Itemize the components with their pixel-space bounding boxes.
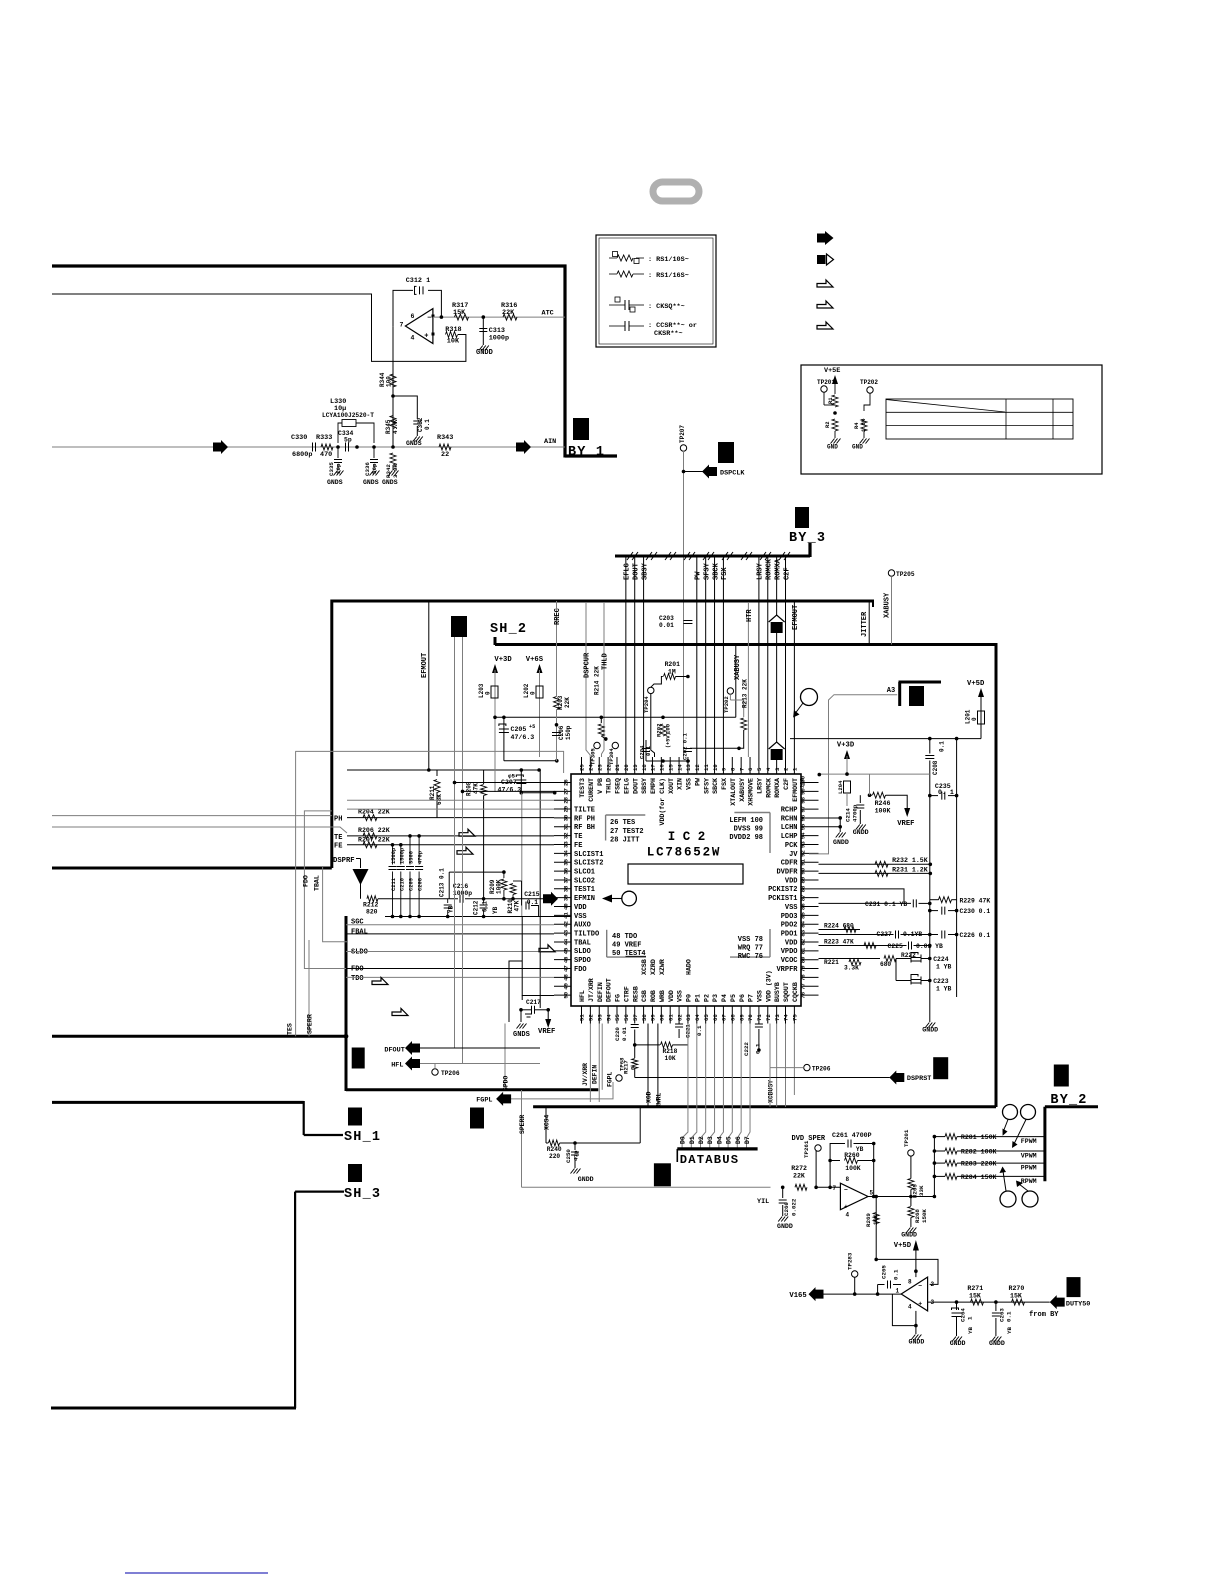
open flag TE row [459, 829, 475, 836]
svg-text:49: 49 [563, 982, 570, 989]
svg-text:XABUSY: XABUSY [884, 592, 892, 618]
svg-text:GNDD: GNDD [901, 1232, 917, 1239]
svg-text:0.01: 0.01 [621, 1027, 628, 1041]
svg-text:4.7K: 4.7K [392, 419, 399, 434]
svg-text:SFSY: SFSY [703, 778, 710, 794]
svg-text:80: 80 [800, 956, 807, 963]
svg-text:88: 88 [800, 885, 807, 892]
resistor R246 100K [868, 793, 872, 797]
svg-text:P5: P5 [730, 994, 737, 1002]
SH_2 frame left lower [345, 916, 348, 1091]
svg-text:VDD: VDD [785, 877, 798, 885]
svg-text:CDFR: CDFR [781, 860, 799, 868]
SH_2 frame bottom main [533, 1105, 996, 1108]
wire SQOUT down [785, 1024, 787, 1107]
wire: thick vertical to BY_1 [563, 265, 566, 458]
svg-text:TP304: TP304 [608, 748, 615, 765]
wire y761 [646, 760, 690, 762]
svg-text:SPDO: SPDO [574, 957, 591, 965]
svg-text:SLCO1: SLCO1 [574, 868, 595, 876]
svg-text:0.1: 0.1 [645, 745, 652, 756]
svg-text:XABUSY: XABUSY [734, 654, 742, 680]
svg-text:25: 25 [579, 764, 586, 771]
svg-text:TBAL: TBAL [314, 875, 321, 891]
op-amp U301 [405, 309, 433, 344]
svg-text:15K: 15K [969, 1293, 981, 1300]
wire CQCKB down [793, 1024, 795, 1096]
svg-text:SQOUT: SQOUT [783, 982, 790, 1002]
svg-text:CURENT: CURENT [588, 778, 595, 802]
ground GNDS [413, 437, 423, 442]
svg-text:4700p: 4700p [852, 804, 859, 822]
SH_2 frame second top [494, 637, 497, 645]
svg-text:470: 470 [320, 451, 332, 459]
open flag FE row [457, 847, 473, 854]
svg-text:YB: YB [1006, 1327, 1013, 1334]
svg-text:from BY: from BY [1029, 1311, 1059, 1319]
resistor R210 47K [513, 880, 522, 882]
svg-text:TP206: TP206 [441, 1070, 460, 1077]
svg-text:: RS1/10S~: : RS1/10S~ [648, 256, 689, 264]
svg-text:C223: C223 [933, 978, 949, 985]
svg-text:R208: R208 [466, 781, 473, 796]
svg-text:22K: 22K [564, 697, 571, 708]
svg-text:56: 56 [623, 1014, 630, 1021]
arrow AIN [516, 440, 531, 454]
svg-text:C250: C250 [565, 1149, 572, 1163]
svg-text:R282 100K: R282 100K [961, 1149, 997, 1156]
svg-text:−: − [844, 1187, 848, 1194]
legend resistor RS1/10S [617, 255, 633, 261]
svg-text:VPWM: VPWM [1021, 1153, 1037, 1160]
svg-text:SLCIST2: SLCIST2 [574, 860, 603, 868]
svg-text:RWC 76: RWC 76 [738, 953, 763, 961]
svg-text:50: 50 [563, 991, 570, 998]
capacitor YB [447, 899, 449, 903]
svg-text:XCS4: XCS4 [544, 1114, 551, 1130]
DSPRST arrow [635, 1077, 890, 1079]
svg-text:1 YB: 1 YB [936, 986, 952, 993]
legend open arrow 1 [817, 280, 833, 287]
wire P0-P7 to databus [682, 1024, 688, 1149]
arrow DUTY50 [1050, 1295, 1065, 1309]
svg-text:C222: C222 [743, 1042, 750, 1056]
svg-text:A3: A3 [887, 687, 895, 695]
wire XCS4 R240 C250 [545, 1107, 547, 1143]
resistor R260 100K [830, 1160, 840, 1162]
svg-text:SPERR: SPERR [519, 1115, 526, 1134]
svg-text:V+6S: V+6S [526, 656, 544, 664]
svg-text:SLCIST1: SLCIST1 [574, 851, 603, 859]
svg-text:60: 60 [659, 1014, 666, 1021]
audio out wires [819, 817, 841, 819]
svg-text:C211: C211 [391, 878, 397, 891]
svg-text:PCK: PCK [785, 842, 798, 850]
wire DEFOUT down [601, 1024, 603, 1090]
svg-text:L204: L204 [837, 780, 844, 794]
wire EFMIN row [378, 898, 458, 900]
wire vertical connector left b [462, 637, 464, 1064]
capacitor C335 10p [337, 447, 339, 458]
wire SH_3 net [295, 1190, 344, 1192]
svg-text:44: 44 [563, 938, 570, 945]
legend arrow half [817, 255, 826, 264]
svg-text:FG: FG [615, 994, 622, 1002]
svg-text:3300: 3300 [409, 851, 415, 864]
inductor L202 [536, 686, 543, 698]
arrow DSPRF down [356, 858, 361, 860]
connector square below edge [470, 1108, 484, 1129]
svg-text:C214: C214 [845, 808, 852, 822]
svg-text:DOUT: DOUT [633, 563, 641, 580]
svg-text:ROMCK: ROMCK [765, 778, 772, 798]
output wire [868, 1196, 934, 1198]
SH_2 frame left [330, 600, 333, 869]
EFMIN circle [622, 891, 637, 906]
svg-text:I C 2: I C 2 [668, 830, 706, 844]
svg-text:P6: P6 [739, 994, 746, 1002]
svg-text:C206: C206 [558, 725, 565, 740]
svg-text:100K: 100K [496, 879, 503, 894]
svg-text:77: 77 [800, 983, 807, 990]
svg-text:R343: R343 [437, 434, 453, 442]
svg-text:28: 28 [563, 796, 570, 803]
svg-text:XGD: XGD [646, 1091, 653, 1103]
connector square bottom left [352, 1048, 365, 1069]
svg-text:TE: TE [334, 834, 342, 842]
wire PCKIST loop [819, 889, 905, 904]
svg-text:CTRF: CTRF [623, 986, 630, 1002]
svg-text:JITTER: JITTER [861, 611, 869, 637]
svg-text:R333: R333 [316, 434, 332, 442]
svg-text:220: 220 [549, 1153, 560, 1160]
svg-text:FDO: FDO [574, 966, 587, 974]
arrow VREF down [904, 808, 910, 817]
svg-text:150p: 150p [565, 725, 572, 740]
wire XCBUSY [769, 1024, 771, 1068]
wire RREC [556, 601, 558, 645]
svg-text:47/6.3: 47/6.3 [511, 734, 535, 741]
svg-text:C212: C212 [473, 900, 480, 915]
svg-text:DFOUT: DFOUT [384, 1046, 404, 1054]
IC2 inset LEFM box [734, 812, 770, 814]
test point box [801, 365, 1102, 474]
resistor R269 10K [875, 1197, 877, 1260]
svg-text:WRQ 77: WRQ 77 [738, 945, 763, 953]
svg-text:SPERR: SPERR [307, 1014, 314, 1034]
svg-text:14: 14 [676, 764, 683, 771]
TP202 circle [727, 688, 733, 694]
svg-text:GNDS: GNDS [382, 479, 398, 486]
svg-text:RF BH: RF BH [574, 824, 595, 832]
svg-text:23: 23 [596, 764, 603, 771]
svg-text:100: 100 [386, 376, 393, 387]
svg-text:D3: D3 [707, 1136, 714, 1144]
svg-text:DSPCLK: DSPCLK [720, 470, 745, 478]
open flag SLDO [539, 945, 555, 952]
svg-text:LRSY: LRSY [757, 562, 765, 580]
svg-text:P4: P4 [721, 994, 728, 1002]
svg-text:R281 150K: R281 150K [961, 1134, 997, 1141]
svg-text:C225: C225 [888, 943, 904, 950]
wire ground bus y916.5 [385, 916, 571, 918]
svg-text:EFMOUT: EFMOUT [792, 605, 800, 630]
svg-text:R229 47K: R229 47K [960, 897, 991, 904]
svg-text:C335: C335 [328, 462, 335, 476]
svg-text:39: 39 [563, 894, 570, 901]
svg-text:JT/XRR: JT/XRR [588, 978, 595, 1002]
table [886, 399, 1073, 439]
svg-text:DSPCUR: DSPCUR [584, 652, 592, 678]
svg-text:TP201: TP201 [817, 379, 835, 386]
ground GNDS C217 [517, 1024, 527, 1029]
IC2 inner rectangle [628, 864, 743, 884]
capacitor C217 [509, 961, 522, 999]
svg-text:GNDD: GNDD [476, 349, 493, 357]
capacitor C205 47/6.3 [503, 717, 505, 761]
svg-text:78: 78 [800, 974, 807, 981]
svg-text:D1: D1 [689, 1136, 696, 1144]
svg-text:R231 1.2K: R231 1.2K [892, 866, 928, 873]
svg-text:WRB: WRB [659, 990, 666, 1002]
wires JT XRR DEFIN below [589, 1024, 591, 1103]
svg-text:10K: 10K [872, 1214, 879, 1225]
svg-text:FDO: FDO [303, 875, 310, 887]
wire vertical x5218 long [521, 793, 523, 917]
svg-text:33K: 33K [918, 1185, 925, 1196]
svg-text:R269: R269 [865, 1213, 872, 1227]
svg-text:C205: C205 [511, 726, 527, 733]
svg-text:1500p: 1500p [399, 848, 405, 864]
svg-text:93: 93 [800, 841, 807, 848]
svg-text:SBCK: SBCK [712, 778, 719, 794]
svg-text:0.1: 0.1 [1006, 1311, 1013, 1322]
svg-text:0: 0 [485, 691, 492, 695]
svg-text:RREC: RREC [554, 608, 562, 625]
svg-text:SH_1: SH_1 [344, 1130, 381, 1145]
svg-text:V165: V165 [789, 1292, 806, 1300]
svg-text:XABUSY: XABUSY [739, 778, 746, 802]
svg-text:ROMXA: ROMXA [774, 778, 781, 798]
resistor R203 22K [554, 697, 560, 710]
svg-text:C336: C336 [364, 462, 371, 476]
resistor R217 0 [634, 1045, 636, 1058]
capacitor C313 1000p [482, 317, 484, 345]
svg-text:87: 87 [800, 894, 807, 901]
IC2 inset TDO box [606, 930, 608, 957]
svg-text:84: 84 [800, 920, 807, 927]
svg-text:0: 0 [630, 1066, 637, 1070]
svg-text:63: 63 [685, 1014, 692, 1021]
svg-text:C203: C203 [659, 615, 674, 622]
wire long left TE [52, 826, 332, 828]
svg-text:CQCKB: CQCKB [792, 982, 799, 1002]
svg-text:C260: C260 [783, 1202, 790, 1216]
svg-text:680: 680 [880, 961, 891, 968]
IC2 top pins [581, 757, 583, 774]
svg-text:P1: P1 [694, 994, 701, 1002]
svg-text:+: + [844, 1204, 848, 1211]
svg-text:SFSY: SFSY [703, 562, 711, 580]
svg-text:BY_3: BY_3 [789, 531, 826, 546]
svg-text:72: 72 [765, 1014, 772, 1021]
svg-text:GNDD: GNDD [922, 1027, 938, 1034]
svg-text:FSX: FSX [721, 778, 728, 790]
svg-text:TILTE: TILTE [574, 806, 595, 814]
SH_2 frame top [332, 600, 874, 603]
svg-text:18: 18 [641, 764, 648, 771]
svg-text:51: 51 [579, 1014, 586, 1021]
svg-text:100: 100 [800, 775, 807, 786]
wire SPOO vertical [504, 1024, 506, 1091]
svg-text:42: 42 [563, 920, 570, 927]
op-amp IC2 body [571, 774, 801, 1006]
capacitor C206 150p [555, 723, 559, 727]
svg-text:AUXO: AUXO [574, 922, 591, 930]
svg-text:TP207: TP207 [679, 425, 686, 443]
svg-text:100K: 100K [875, 808, 891, 815]
svg-text:100: 100 [665, 723, 672, 734]
svg-text:47K: 47K [514, 900, 521, 911]
svg-text:GNDS: GNDS [406, 440, 422, 447]
svg-text:C216: C216 [453, 883, 469, 890]
svg-text:99: 99 [800, 788, 807, 795]
IC2 bottom pins [581, 1006, 583, 1024]
svg-text:47K: 47K [473, 783, 480, 794]
svg-text:C226 0.1: C226 0.1 [960, 932, 991, 939]
svg-text:PDO3: PDO3 [781, 913, 798, 921]
svg-text:R221: R221 [824, 959, 839, 966]
svg-text:R224 680: R224 680 [824, 923, 854, 930]
wire long left PH [52, 815, 332, 817]
svg-text:YB: YB [492, 906, 499, 914]
svg-text:1000p: 1000p [489, 335, 509, 343]
TP305 [594, 742, 600, 748]
resistor R268 150K [910, 1197, 912, 1207]
resistor R342 3.9K [390, 453, 396, 465]
svg-text:98: 98 [800, 796, 807, 803]
svg-text:XIN: XIN [677, 778, 684, 790]
svg-text:D6: D6 [735, 1136, 742, 1144]
connector A3 square [909, 686, 924, 706]
svg-text:DOUT: DOUT [632, 778, 639, 794]
svg-text:C213 0.1: C213 0.1 [439, 868, 446, 897]
svg-text:65: 65 [703, 1014, 710, 1021]
resistor R202 100 [660, 724, 666, 736]
svg-text:TP305: TP305 [590, 748, 597, 765]
resistor R1 [832, 395, 838, 407]
svg-text:97: 97 [800, 806, 807, 813]
svg-text:RCHP: RCHP [781, 806, 798, 814]
svg-text:TP202: TP202 [723, 696, 730, 713]
svg-text:R214 22K: R214 22K [594, 666, 601, 695]
svg-text:XTALOUT: XTALOUT [730, 778, 737, 806]
resistor R265 33K [908, 1179, 914, 1190]
svg-text:FE: FE [574, 842, 582, 850]
svg-text:29: 29 [563, 805, 570, 812]
svg-text:R270: R270 [1009, 1285, 1025, 1292]
svg-text:EFMOUT: EFMOUT [421, 653, 429, 678]
svg-text:TP204: TP204 [643, 696, 650, 713]
svg-text:35: 35 [563, 858, 570, 865]
TP304 [612, 742, 618, 748]
capacitor C263 0.1 [995, 1302, 997, 1311]
svg-text:61: 61 [667, 1014, 674, 1021]
svg-text:30: 30 [563, 814, 570, 821]
corner A3 [899, 681, 942, 684]
svg-text:83: 83 [800, 929, 807, 936]
svg-text:GNDS: GNDS [363, 479, 379, 486]
legend capacitor CCSR [625, 321, 629, 331]
svg-text:RCHN: RCHN [781, 815, 798, 823]
svg-text:VSS: VSS [757, 990, 764, 1002]
svg-text:FBAL: FBAL [351, 928, 368, 936]
legend open arrow 2 [817, 301, 833, 308]
op-amp IC260 A [840, 1183, 868, 1210]
svg-text:SLCO2: SLCO2 [574, 877, 595, 885]
svg-text:22K: 22K [793, 1173, 805, 1180]
svg-text:SH_3: SH_3 [344, 1187, 381, 1202]
wire rail y770 right [437, 769, 539, 771]
svg-text:74: 74 [783, 1014, 790, 1021]
svg-text:C220: C220 [614, 1027, 621, 1041]
svg-text:7: 7 [738, 768, 745, 771]
wire V165 output [823, 1293, 902, 1295]
IC2 inset VSS box [730, 956, 770, 958]
svg-text:VDD: VDD [785, 939, 798, 947]
svg-text:−: − [918, 1283, 922, 1290]
svg-text:0.1: 0.1 [482, 901, 489, 912]
svg-text:17: 17 [650, 764, 657, 771]
svg-text:LCHN: LCHN [781, 824, 798, 832]
svg-text:FDO: FDO [351, 966, 364, 974]
wire HTR [747, 602, 749, 757]
svg-text:38: 38 [563, 885, 570, 892]
svg-text:43: 43 [563, 929, 570, 936]
svg-text:EMPH: EMPH [650, 778, 657, 794]
svg-text:R260: R260 [844, 1152, 860, 1159]
svg-text:45: 45 [563, 947, 570, 954]
svg-text:36: 36 [563, 867, 570, 874]
resistor R223 47K [819, 945, 881, 947]
svg-text:79: 79 [800, 965, 807, 972]
svg-text:GNDD: GNDD [833, 839, 849, 846]
resistor R214 22K [600, 717, 602, 723]
svg-text:C263: C263 [999, 1308, 1006, 1322]
svg-text:PCKIST1: PCKIST1 [768, 895, 797, 903]
svg-text:D4: D4 [716, 1136, 723, 1144]
svg-text:LEFM 100: LEFM 100 [729, 817, 763, 825]
svg-text:66: 66 [712, 1014, 719, 1021]
svg-text:SLDO: SLDO [351, 948, 368, 956]
capacitor C214 4700p [859, 795, 861, 803]
svg-text:47: 47 [563, 965, 570, 972]
svg-text:1: 1 [967, 1316, 974, 1320]
wire THLD [603, 602, 605, 645]
svg-text:91: 91 [800, 858, 807, 865]
svg-text:95: 95 [800, 823, 807, 830]
legend resistor RS1/16S [609, 273, 617, 275]
svg-text:89: 89 [800, 876, 807, 883]
svg-text:75: 75 [792, 1014, 799, 1021]
svg-text:TP283: TP283 [847, 1252, 854, 1270]
svg-text:7: 7 [833, 1185, 837, 1192]
svg-text:GNDD: GNDD [853, 829, 869, 836]
svg-text:R201: R201 [665, 661, 681, 668]
svg-text:R2: R2 [824, 421, 831, 428]
capacitor C202 0.1 [684, 749, 692, 752]
svg-text:85: 85 [800, 912, 807, 919]
